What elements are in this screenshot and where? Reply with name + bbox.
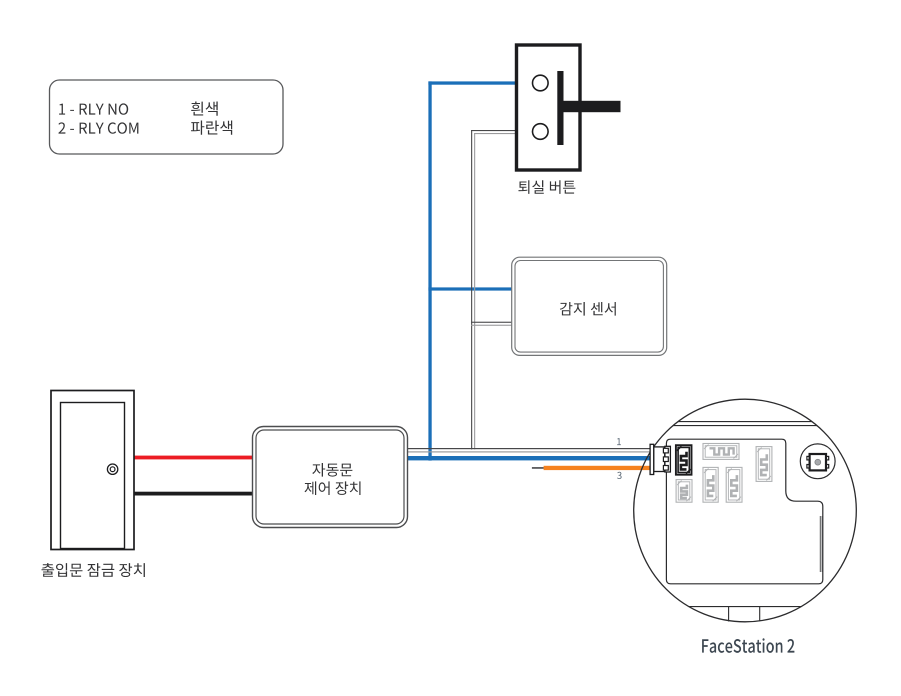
FaceStation zoom circle bbox=[634, 399, 857, 622]
device rear panel outline bbox=[666, 439, 822, 584]
label 감지 센서 (detection sensor) bbox=[560, 302, 616, 316]
device top edge chord upper bbox=[678, 421, 812, 423]
pin number 1 bbox=[617, 438, 621, 445]
label 제어 장치 (control device) line 2 bbox=[305, 481, 361, 495]
door knob bbox=[107, 464, 117, 474]
legend box bbox=[50, 80, 284, 154]
device bottom bracket bbox=[689, 607, 802, 622]
3-pin connector face bar bbox=[650, 444, 654, 474]
door leaf inner bbox=[61, 403, 125, 549]
door frame outer bbox=[51, 391, 134, 550]
exit button terminal upper (blue wire) bbox=[533, 75, 549, 91]
legend text wire color 흰색 (white) bbox=[191, 102, 218, 116]
wire white vertical from exit button down bbox=[471, 130, 517, 449]
wire black lead before orange bbox=[532, 467, 544, 468]
label FaceStation 2 bbox=[702, 638, 794, 653]
wire blue branch to sensor box bbox=[428, 287, 512, 290]
legend text wire color 파란색 (blue) bbox=[191, 121, 232, 135]
device top edge chord lower bbox=[673, 425, 817, 427]
wire black door lock to controller bbox=[134, 492, 254, 496]
device camera square with nubs bbox=[807, 454, 829, 470]
3-pin connector pins bbox=[663, 448, 668, 470]
label 퇴실 버튼 (exit button) bbox=[518, 180, 575, 194]
connector mini-USB (black) bbox=[676, 445, 692, 475]
door controller box outer bbox=[253, 427, 408, 528]
legend text 2 - RLY COM bbox=[58, 122, 138, 133]
3-pin connector receptacle on panel bbox=[665, 446, 671, 472]
exit button actuator bar horizontal bbox=[560, 101, 621, 112]
connector center vertical 1 (gray) bbox=[703, 467, 718, 502]
device camera center dot bbox=[815, 459, 821, 465]
pin number 3 bbox=[617, 472, 622, 479]
3-pin connector plug body bbox=[654, 447, 665, 472]
wire blue horizontal main run (RLY COM) controller to FaceStation pin bbox=[408, 456, 652, 460]
exit button body bbox=[517, 45, 581, 170]
exit button plunger bar vertical bbox=[557, 71, 563, 145]
sensor box inner bbox=[515, 261, 663, 353]
wire white branch to sensor box bbox=[471, 322, 512, 326]
label 자동문 (automatic door) line 1 bbox=[312, 463, 352, 477]
panel edge slot bbox=[820, 516, 822, 572]
connector header top horizontal (gray) bbox=[703, 444, 739, 460]
wire blue vertical from exit button to door controller run bbox=[428, 81, 517, 460]
wire white horizontal main run (RLY NO) controller to FaceStation pin bbox=[408, 448, 652, 453]
label 출입문 잠금 장치 (door lock device) bbox=[42, 563, 145, 577]
exit button terminal lower (white wire) bbox=[533, 124, 549, 140]
wire red door lock to controller bbox=[134, 456, 254, 460]
door controller box inner bbox=[256, 430, 404, 524]
device camera circle bbox=[800, 444, 835, 479]
connector header right vertical (gray) bbox=[756, 447, 772, 482]
legend text 1 - RLY NO bbox=[59, 103, 128, 114]
connector center vertical 2 (gray) bbox=[726, 467, 742, 502]
sensor box outer bbox=[512, 257, 667, 355]
wire orange to FaceStation pin 3 bbox=[544, 466, 651, 470]
connector small left (gray) bbox=[676, 480, 692, 503]
